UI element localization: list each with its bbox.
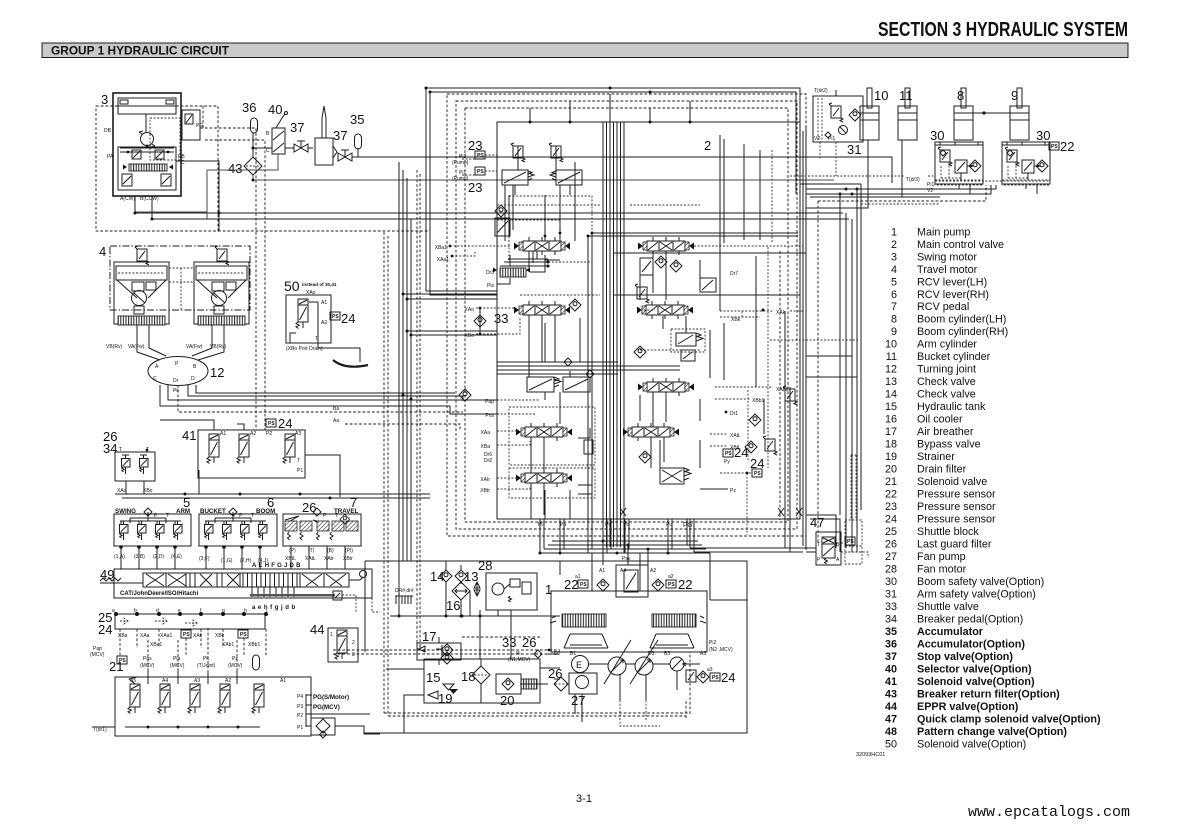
svg-text:6RCV lever(RH): 6RCV lever(RH) — [891, 289, 989, 301]
svg-text:XAk: XAk — [776, 310, 786, 316]
svg-text:B: B — [193, 364, 197, 370]
pressure sensor 23 (Pi1 pump) — [452, 167, 497, 195]
accumulator 36 — [242, 100, 258, 133]
stop valve 37 left — [290, 120, 308, 152]
svg-text:22Pressure sensor: 22Pressure sensor — [885, 489, 996, 501]
mid horizontal bundle — [497, 362, 680, 374]
svg-text:instead of 30,41: instead of 30,41 — [302, 282, 337, 287]
pressure sensor 22 right — [666, 580, 676, 588]
svg-text:A2: A2 — [250, 431, 256, 437]
wire: top frame — [426, 88, 800, 194]
svg-text:A3: A3 — [194, 678, 200, 684]
RCV lever 5 — [114, 495, 191, 560]
svg-text:E: E — [576, 660, 582, 670]
svg-text:(4,E): (4,E) — [171, 554, 182, 560]
svg-text:A3: A3 — [700, 651, 706, 657]
svg-text:2Main control valve: 2Main control valve — [891, 239, 1004, 251]
wire: right column verticals — [720, 135, 764, 434]
svg-text:32093HC01: 32093HC01 — [856, 752, 885, 758]
svg-text:Pb: Pb — [623, 522, 629, 528]
svg-text:GROUP 1 HYDRAULIC CIRCUIT: GROUP 1 HYDRAULIC CIRCUIT — [51, 44, 230, 58]
svg-text:P3: P3 — [297, 704, 303, 710]
svg-text:A2: A2 — [321, 320, 327, 326]
svg-text:16: 16 — [446, 598, 460, 613]
svg-text:(B): (B) — [327, 548, 334, 554]
svg-text:16Oil cooler: 16Oil cooler — [885, 414, 963, 426]
svg-text:XAa1: XAa1 — [437, 257, 449, 263]
travel motor 4 — [99, 244, 250, 350]
svg-text:20Drain filter: 20Drain filter — [885, 464, 967, 476]
svg-text:XBa: XBa — [118, 633, 128, 639]
spool row R1 (boom2) — [638, 237, 694, 255]
svg-text:A1: A1 — [220, 431, 226, 437]
svg-text:XBa1: XBa1 — [150, 642, 162, 648]
svg-text:Dr7: Dr7 — [730, 271, 738, 277]
wire: 25 block drops — [120, 629, 266, 656]
svg-text:A1: A1 — [321, 300, 327, 306]
svg-text:24: 24 — [278, 416, 292, 431]
svg-text:(1,A): (1,A) — [114, 554, 125, 560]
svg-text:A1: A1 — [280, 678, 286, 684]
wire: 31 to trunk — [820, 142, 836, 176]
svg-text:XAtL: XAtL — [305, 556, 316, 562]
svg-text:P2: P2 — [266, 431, 272, 437]
svg-text:34Breaker pedal(Option): 34Breaker pedal(Option) — [885, 614, 1023, 626]
svg-text:Pa: Pa — [560, 522, 566, 528]
breaker pedal 34 / RCV 26 — [103, 429, 155, 494]
pilot supply rail — [115, 493, 430, 495]
svg-text:www.epcatalogs.com: www.epcatalogs.com — [968, 805, 1130, 821]
svg-text:XAtL: XAtL — [730, 433, 741, 439]
wire: boom rod link — [963, 112, 1014, 114]
drain filter by 21 — [306, 714, 380, 738]
wire: 50 drain curve — [290, 333, 296, 343]
fan motor 28 — [474, 558, 537, 610]
travel motor left unit — [114, 246, 169, 325]
check valve 14 — [430, 569, 452, 584]
svg-text:PG(MCV): PG(MCV) — [313, 704, 340, 711]
svg-text:3Swing motor: 3Swing motor — [891, 251, 977, 263]
svg-text:Ba: Ba — [333, 406, 339, 412]
svg-text:15Hydraulic tank: 15Hydraulic tank — [885, 401, 986, 413]
wire: right trunk — [806, 185, 996, 194]
svg-text:31Arm safety valve(Option): 31Arm safety valve(Option) — [885, 589, 1036, 601]
wire: 21 block pilot drops — [148, 671, 237, 684]
svg-text:48Pattern change valve(Option): 48Pattern change valve(Option) — [885, 726, 1067, 738]
svg-text:(2,D): (2,D) — [153, 554, 164, 560]
svg-text:T: T — [817, 542, 820, 548]
svg-text:XAa: XAa — [140, 633, 150, 639]
wire: valve train main — [253, 147, 272, 149]
svg-text:Pns: Pns — [485, 413, 494, 419]
dotted cluster box lower — [509, 468, 595, 498]
hydraulic tank 15 — [424, 659, 540, 706]
svg-text:(XBo Port Drain): (XBo Port Drain) — [286, 346, 323, 352]
svg-text:XAo: XAo — [117, 488, 127, 494]
svg-text:XBb1: XBb1 — [752, 398, 764, 404]
selector valve 40 — [266, 102, 288, 154]
svg-text:XAo: XAo — [465, 307, 475, 313]
svg-text:11Bucket cylinder: 11Bucket cylinder — [886, 351, 991, 363]
wire — [384, 232, 388, 716]
svg-text:2: 2 — [352, 640, 355, 646]
boom safety valve 30 LH — [927, 128, 983, 194]
svg-text:C: C — [153, 376, 157, 382]
svg-text:DR#,dr#: DR#,dr# — [395, 588, 414, 594]
svg-text:36: 36 — [242, 100, 256, 115]
interior dashed texture — [497, 205, 700, 350]
wire: swing A line — [135, 196, 843, 213]
arm safety valve 31 — [813, 88, 863, 157]
svg-text:T(dr2): T(dr2) — [814, 88, 828, 94]
svg-text:7RCV pedal: 7RCV pedal — [891, 301, 969, 313]
svg-text:P4: P4 — [297, 694, 303, 700]
RCV lever 6 — [199, 495, 277, 564]
svg-text:23Pressure sensor: 23Pressure sensor — [885, 501, 996, 513]
boom cylinder 9 — [1010, 88, 1029, 140]
engine E — [572, 656, 589, 673]
spool row R4 (travel right) — [623, 423, 679, 441]
pump circles — [608, 657, 626, 675]
svg-text:Aa: Aa — [333, 418, 339, 424]
svg-text:XAb1: XAb1 — [776, 387, 788, 393]
svg-text:12: 12 — [210, 365, 224, 380]
shuttle 33 / last guard 26 labels — [502, 635, 558, 663]
svg-text:24Pressure sensor: 24Pressure sensor — [885, 514, 996, 526]
wire: return line pair — [207, 154, 278, 219]
svg-text:28: 28 — [478, 558, 492, 573]
svg-text:B: B — [836, 542, 840, 548]
svg-text:XAa1: XAa1 — [160, 633, 172, 639]
svg-text:XAb1: XAb1 — [222, 642, 234, 648]
svg-text:12Turning joint: 12Turning joint — [885, 364, 976, 376]
svg-text:T(dr3): T(dr3) — [906, 177, 920, 183]
svg-text:A1: A1 — [599, 568, 605, 574]
check valve 13 — [455, 569, 478, 584]
svg-text:27: 27 — [571, 693, 585, 708]
svg-text:VB(Rv): VB(Rv) — [106, 344, 122, 350]
svg-text:A2: A2 — [650, 568, 656, 574]
svg-text:DB: DB — [104, 128, 112, 134]
wire: bottom trunk dashed — [384, 713, 690, 716]
dashed cluster box — [509, 196, 592, 262]
svg-text:(3,B): (3,B) — [134, 554, 145, 560]
svg-text:XBa: XBa — [481, 444, 491, 450]
svg-text:Pz: Pz — [730, 488, 736, 494]
svg-text:23: 23 — [468, 180, 482, 195]
drain filter 20 — [496, 674, 537, 708]
svg-text:1: 1 — [330, 632, 333, 638]
dashed enclosure around swing/pilot area — [96, 106, 218, 231]
svg-text:(Pump): (Pump) — [452, 160, 469, 166]
svg-text:33Shuttle valve: 33Shuttle valve — [885, 601, 979, 613]
svg-text:50Solenoid valve(Option): 50Solenoid valve(Option) — [885, 738, 1026, 750]
svg-text:A4: A4 — [162, 678, 168, 684]
svg-text:Pu: Pu — [666, 522, 672, 528]
svg-text:44: 44 — [310, 622, 324, 637]
svg-text:36Accumulator(Option): 36Accumulator(Option) — [885, 639, 1025, 651]
svg-text:Pls: Pls — [487, 283, 494, 289]
svg-text:43Breaker return filter(Option: 43Breaker return filter(Option) — [885, 688, 1060, 700]
svg-text:A: A — [836, 557, 840, 563]
wire: travel to turning joint — [137, 325, 160, 360]
svg-text:PA: PA — [107, 154, 114, 160]
svg-text:30: 30 — [930, 128, 944, 143]
main control valve 2 outer dashed enclosures — [447, 94, 806, 536]
boom safety valve 30 RH — [1002, 128, 1050, 185]
solenoid valve block 21 — [92, 655, 349, 736]
svg-text:B1: B1 — [570, 651, 576, 657]
svg-text:14Check valve: 14Check valve — [885, 389, 976, 401]
DR drain comb — [395, 588, 414, 604]
svg-text:35Accumulator: 35Accumulator — [885, 626, 984, 638]
svg-text:41Solenoid valve(Option): 41Solenoid valve(Option) — [885, 676, 1035, 688]
svg-text:(N2 ,MCV): (N2 ,MCV) — [709, 647, 733, 653]
breaker pedal curve — [333, 360, 368, 367]
svg-text:(PI): (PI) — [345, 548, 353, 554]
svg-text:CAT/JohnDeere/ISO/Hitachi: CAT/JohnDeere/ISO/Hitachi — [120, 591, 199, 597]
travel motor right unit — [194, 246, 249, 325]
spool row R2 (arm) — [635, 284, 649, 303]
svg-text:VA(Fw): VA(Fw) — [186, 344, 203, 350]
wire: turning joint down pair right — [188, 385, 463, 401]
svg-text:Psv: Psv — [622, 556, 631, 562]
svg-text:XBa1: XBa1 — [435, 245, 447, 251]
svg-text:31: 31 — [847, 142, 861, 157]
turning joint 12 — [148, 357, 224, 395]
svg-text:10: 10 — [874, 88, 888, 103]
svg-text:P: P — [175, 361, 179, 367]
svg-text:40: 40 — [268, 102, 282, 117]
svg-text:15: 15 — [426, 670, 440, 685]
svg-text:19: 19 — [438, 691, 452, 706]
svg-text:A(CW): A(CW) — [120, 196, 135, 202]
wire: swing B line — [152, 196, 849, 219]
svg-text:3: 3 — [352, 652, 355, 658]
svg-text:(MCV): (MCV) — [90, 652, 105, 658]
svg-text:4Travel motor: 4Travel motor — [891, 264, 978, 276]
svg-text:T: T — [119, 447, 122, 453]
svg-text:Pap: Pap — [485, 399, 494, 405]
EPPR valve 44 — [310, 622, 358, 662]
breaker return filter 43 — [228, 133, 262, 176]
svg-text:30Boom safety valve(Option): 30Boom safety valve(Option) — [885, 576, 1044, 588]
stop valve 37 right — [333, 128, 352, 161]
svg-text:3-1: 3-1 — [576, 793, 592, 805]
relief valve pair top of MCV — [511, 143, 525, 162]
svg-text:37: 37 — [333, 128, 347, 143]
svg-text:A3: A3 — [295, 431, 301, 437]
swing motor 3 — [101, 92, 219, 231]
bypass valve 18 — [461, 659, 490, 703]
shuttle block 25 / sensors 24 — [90, 608, 268, 664]
svg-text:43: 43 — [228, 161, 242, 176]
spool row R3 (arm1) — [638, 378, 694, 396]
pressure sensor 23 (Pi2 pump) — [452, 138, 497, 166]
svg-text:XBb1: XBb1 — [248, 642, 260, 648]
wire: rcv to shuttle verticals — [121, 547, 260, 569]
selector solenoid valve — [671, 329, 705, 352]
svg-text:9Boom cylinder(RH): 9Boom cylinder(RH) — [891, 326, 1008, 338]
svg-text:V2: V2 — [814, 136, 820, 142]
bucket cylinder 11 — [898, 88, 917, 140]
wire: tank/cooler links — [446, 591, 511, 659]
svg-text:13Check valve: 13Check valve — [885, 376, 976, 388]
svg-text:Pt: Pt — [538, 522, 543, 528]
svg-text:22: 22 — [678, 577, 692, 592]
svg-text:27Fan pump: 27Fan pump — [885, 551, 966, 563]
pilot valves row y170 — [502, 170, 528, 185]
svg-text:A: A — [155, 364, 159, 370]
svg-text:(3,F): (3,F) — [199, 556, 210, 562]
svg-text:(MCV): (MCV) — [140, 663, 155, 669]
svg-text:37Stop valve(Option): 37Stop valve(Option) — [885, 651, 1013, 663]
breaker chisel — [315, 106, 337, 165]
svg-text:P1: P1 — [297, 468, 303, 474]
svg-text:Pla: Pla — [173, 656, 180, 662]
wire: supply rail pair — [588, 233, 592, 553]
wire: mcv right double edge — [803, 127, 806, 550]
svg-text:T: T — [297, 458, 300, 464]
svg-text:PG: PG — [683, 522, 692, 529]
svg-text:a3: a3 — [707, 667, 713, 673]
svg-text:AEHFGJDB: AEHFGJDB — [252, 563, 303, 569]
arm cylinder 10 — [860, 88, 888, 140]
svg-text:35: 35 — [350, 112, 364, 127]
svg-text:24: 24 — [721, 670, 735, 685]
svg-text:26Last guard filter: 26Last guard filter — [885, 539, 992, 551]
svg-text:1Main pump: 1Main pump — [891, 226, 970, 238]
svg-text:20: 20 — [500, 693, 514, 708]
wire: 47 feed — [806, 548, 816, 552]
svg-text:VA(Fw): VA(Fw) — [128, 344, 145, 350]
svg-text:P2: P2 — [297, 713, 303, 719]
shuttle block 49 — [100, 563, 380, 612]
svg-text:P1: P1 — [297, 725, 303, 731]
svg-text:8Boom cylinder(LH): 8Boom cylinder(LH) — [891, 314, 1006, 326]
svg-text:XBk: XBk — [731, 317, 741, 323]
wire: spool drops — [529, 251, 686, 519]
svg-text:24: 24 — [734, 445, 748, 460]
oil cooler 16 — [446, 582, 470, 613]
quick clamp cylinder dashed — [845, 455, 862, 564]
accumulator 35 — [350, 112, 364, 149]
svg-text:21: 21 — [109, 659, 123, 674]
solenoid valve 50 — [284, 278, 355, 352]
svg-text:37: 37 — [290, 120, 304, 135]
svg-text:B(CCW): B(CCW) — [140, 196, 159, 202]
svg-text:XAa: XAa — [481, 430, 491, 436]
X marks bottom — [620, 508, 802, 516]
svg-text:D3: D3 — [648, 651, 655, 657]
svg-text:T: T — [335, 513, 338, 519]
wire: bottom enclosure — [364, 561, 747, 733]
svg-text:Dr: Dr — [173, 378, 179, 384]
svg-text:28Fan motor: 28Fan motor — [885, 564, 967, 576]
svg-text:17: 17 — [422, 629, 436, 644]
relief glyph right column — [783, 386, 797, 405]
svg-text:(Pump): (Pump) — [452, 176, 469, 182]
svg-text:24: 24 — [98, 622, 112, 637]
svg-text:33: 33 — [494, 311, 508, 326]
svg-text:47Quick clamp solenoid valve(O: 47Quick clamp solenoid valve(Option) — [885, 713, 1101, 725]
bpc valve R5 — [660, 468, 684, 484]
pressure sensor 22 left — [578, 580, 588, 588]
wire: 41 feeds — [160, 420, 214, 430]
pilot valve pair row y377 — [527, 377, 554, 392]
svg-text:24: 24 — [341, 311, 355, 326]
RCV pedal 7 — [283, 495, 361, 562]
svg-text:44EPPR valve(Option): 44EPPR valve(Option) — [885, 701, 1019, 713]
svg-text:C: C — [266, 148, 270, 154]
svg-text:(MCV): (MCV) — [170, 663, 185, 669]
svg-text:(P): (P) — [289, 548, 296, 554]
svg-text:30: 30 — [1036, 128, 1050, 143]
svg-text:40Selector valve(Option): 40Selector valve(Option) — [885, 664, 1032, 676]
svg-text:Dr2: Dr2 — [484, 458, 492, 464]
svg-text:21Solenoid valve: 21Solenoid valve — [885, 476, 987, 488]
regulators — [562, 614, 606, 627]
pressure sensor 22 top — [1049, 139, 1074, 154]
svg-text:D: D — [191, 376, 195, 382]
svg-text:41: 41 — [182, 428, 196, 443]
svg-text:aehfgjdb: aehfgjdb — [252, 605, 298, 611]
svg-text:25Shuttle block: 25Shuttle block — [885, 526, 979, 538]
wire: top edge stubs — [530, 94, 690, 122]
svg-text:XAtr: XAtr — [480, 477, 490, 483]
svg-text:10Arm cylinder: 10Arm cylinder — [885, 339, 977, 351]
svg-text:a2: a2 — [668, 574, 674, 580]
solenoid valve block 41 — [182, 416, 305, 478]
svg-text:Ps: Ps — [605, 522, 611, 528]
svg-text:XBo: XBo — [465, 333, 475, 339]
svg-text:17Air breather: 17Air breather — [885, 426, 974, 438]
wire: left column feeds — [505, 162, 575, 241]
svg-text:14: 14 — [430, 569, 444, 584]
pressure sensor 24 by 47 — [845, 537, 855, 545]
small valve w/ diamond — [495, 205, 507, 217]
svg-text:Py: Py — [724, 459, 730, 465]
wire: mcv right edge to 47/pump trunk — [690, 548, 816, 552]
svg-text:4: 4 — [99, 244, 106, 259]
svg-text:22: 22 — [1060, 139, 1074, 154]
svg-text:19Strainer: 19Strainer — [885, 451, 955, 463]
svg-text:(T/Joint): (T/Joint) — [197, 663, 216, 669]
main control valve 2 body — [497, 122, 800, 519]
svg-text:a1: a1 — [575, 574, 581, 580]
svg-text:47: 47 — [810, 515, 824, 530]
relief + sensor 24 — [686, 670, 696, 682]
wire: pump bottom dashed — [575, 671, 677, 722]
svg-text:50: 50 — [284, 278, 300, 294]
svg-text:XAtr: XAtr — [324, 556, 334, 562]
svg-text:T(dr1): T(dr1) — [93, 727, 107, 733]
svg-text:5RCV lever(LH): 5RCV lever(LH) — [891, 276, 987, 288]
group title bar — [42, 43, 1128, 58]
air breather 17 — [340, 514, 461, 664]
wire: MCV bottom drops — [540, 519, 687, 553]
wire: central vertical bundle — [603, 122, 624, 553]
svg-text:2: 2 — [704, 138, 711, 153]
svg-text:B3: B3 — [664, 651, 670, 657]
wire: swing PG dashed — [200, 128, 256, 430]
quick clamp solenoid valve 47 — [810, 515, 841, 565]
svg-text:B: B — [266, 131, 270, 137]
wire: safety valve bottoms — [959, 185, 1037, 194]
wire: turning joint down pair left — [160, 385, 497, 414]
svg-text:Pi2: Pi2 — [709, 640, 716, 646]
svg-text:18Bypass valve: 18Bypass valve — [885, 439, 981, 451]
